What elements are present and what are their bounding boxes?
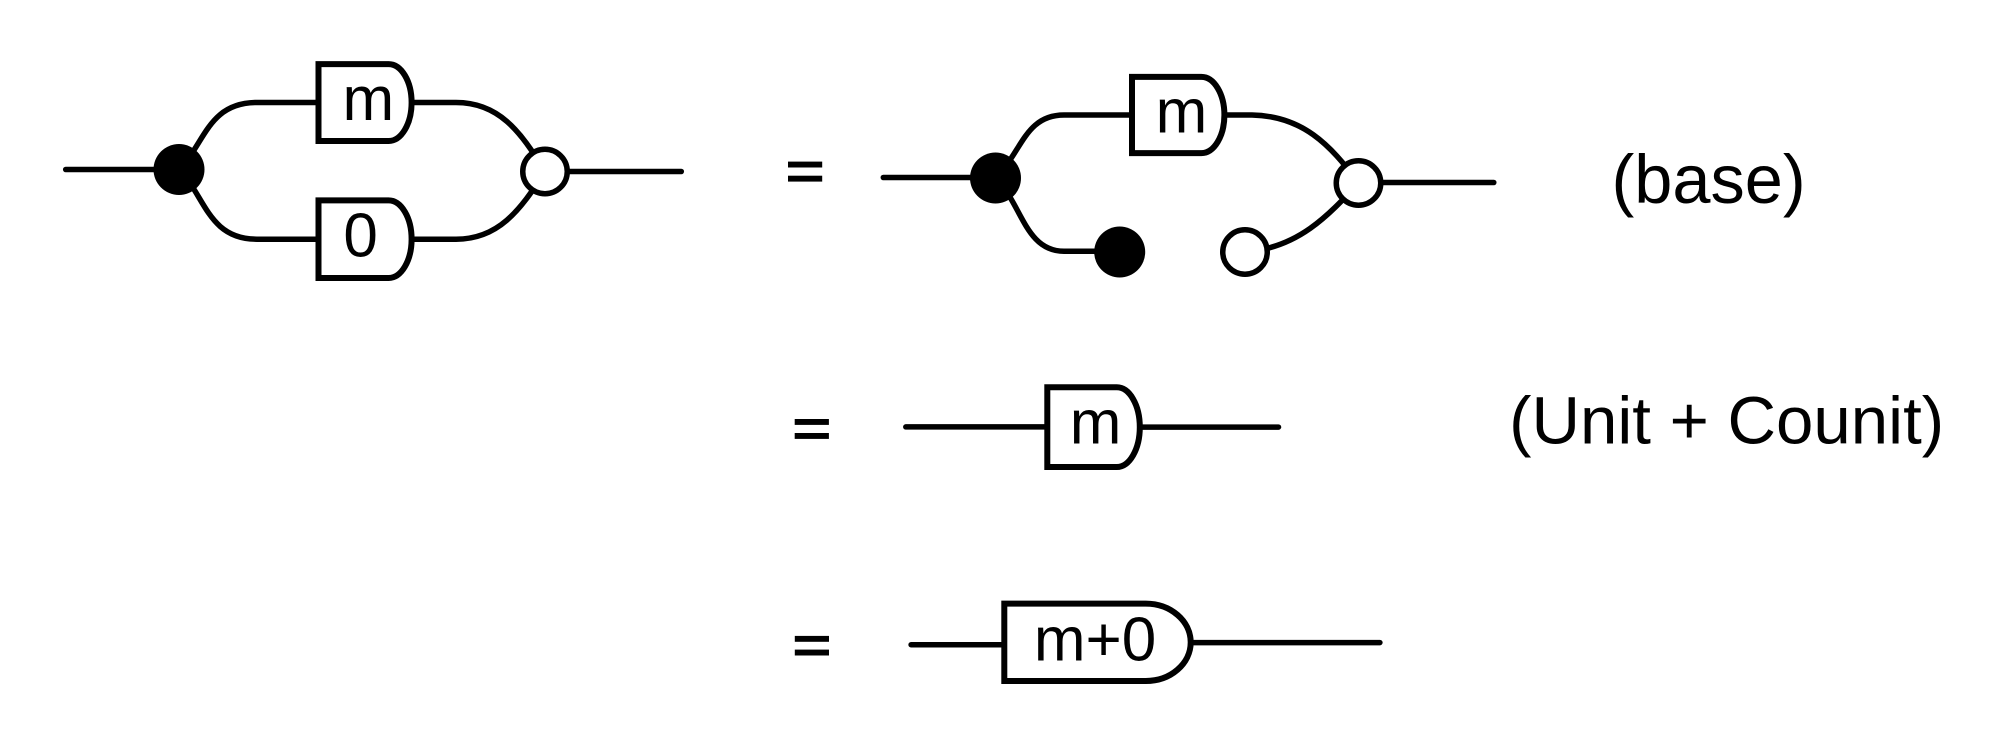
svg-text:m+0: m+0 [1034, 606, 1156, 675]
svg-text:m: m [343, 65, 395, 134]
svg-text:0: 0 [343, 202, 377, 271]
svg-text:(base): (base) [1612, 141, 1806, 218]
svg-text:(Unit + Counit): (Unit + Counit) [1509, 383, 1944, 458]
svg-text:m: m [1156, 77, 1208, 146]
svg-text:m: m [1070, 389, 1122, 458]
